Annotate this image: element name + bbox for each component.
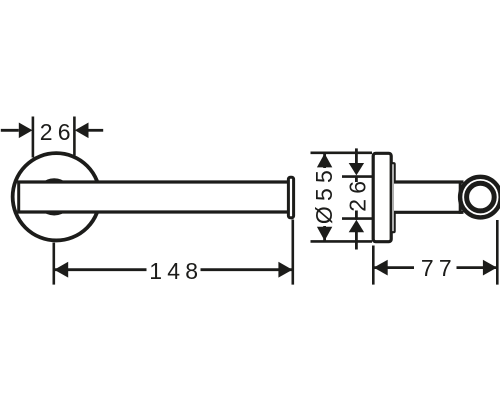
svg-text:26: 26	[345, 176, 371, 212]
front view: roll-holder bar body (white fill over circle)	[19, 182, 288, 212]
dimension 26 (side): top arrow	[349, 163, 364, 175]
dimension D55: top extension line	[311, 152, 373, 155]
dimension 148: left extension line	[52, 243, 55, 285]
side view: arm body white fill	[394, 182, 461, 212]
side view: ring inner circle	[467, 183, 495, 211]
side view: ring outer circle	[460, 177, 500, 218]
front view: mounting hub circle (peeks above/below bar)	[37, 180, 71, 214]
dimension 77: left arrow	[374, 260, 388, 276]
side view: wall plate	[373, 153, 391, 241]
svg-text:77: 77	[421, 255, 457, 281]
dimension 26 (side): value label	[345, 176, 371, 212]
dimension 26 (front): value label	[40, 119, 76, 145]
dimension 26 (side): top extension line	[342, 175, 373, 178]
front view: bar bottom line	[17, 210, 288, 213]
dimension D55: bottom extension line	[311, 240, 373, 243]
dimension D55: line bottom segment	[323, 226, 326, 241]
dimension 26 (side): bottom arrow	[349, 220, 364, 232]
dimension 26 (side): top tail line	[355, 148, 358, 163]
dimension D55: top arrow	[317, 153, 332, 167]
dimension 148: line right segment	[201, 268, 293, 271]
svg-text:26: 26	[40, 119, 76, 145]
dimension 148: line left segment	[54, 268, 146, 271]
dimension 26 (front): left arrow	[19, 123, 33, 139]
dimension 148: left arrow	[54, 262, 68, 278]
dimension 26 (side): bottom tail line	[355, 232, 358, 250]
front view: bar top line	[17, 180, 288, 183]
dimension 77: line right segment	[457, 266, 497, 269]
dimension 148: value label	[149, 258, 203, 284]
dimension 26 (front): left extension line	[32, 117, 35, 158]
svg-text:Ø55: Ø55	[311, 165, 337, 224]
side view: arm bottom line	[394, 211, 464, 214]
dimension 26 (front): right extension line	[73, 117, 76, 156]
dimension 77: right arrow	[483, 260, 497, 276]
side view: arm top line	[394, 180, 464, 183]
dimension D55: value label	[311, 165, 337, 224]
dimension 26 (front): right tail line	[89, 129, 104, 132]
dimension 77: left extension line	[372, 246, 375, 285]
dimension 77: value label	[421, 255, 457, 281]
dimension 26 (side): line top segment	[355, 175, 358, 182]
front view: bar left end line	[17, 181, 20, 214]
dimension 148: right extension line	[291, 220, 294, 285]
dimension 26 (front): left tail line	[1, 129, 19, 132]
dimension D55: bottom arrow	[317, 227, 332, 241]
svg-text:148: 148	[149, 258, 203, 284]
side view: front collar strip	[391, 163, 394, 232]
dimension 26 (side): line bottom segment	[355, 211, 358, 220]
dimension 26 (front): right arrow	[75, 123, 89, 139]
dimension 148: right arrow	[278, 262, 292, 278]
dimension D55: line top segment	[323, 153, 326, 168]
dimension 26 (side): bottom extension line	[342, 217, 373, 220]
side view: arm end line	[459, 181, 462, 214]
dimension 77: line left segment	[374, 266, 414, 269]
front view: rosette circle	[13, 153, 100, 240]
front view: bar end cap	[288, 177, 293, 217]
dimension 77: right extension line	[496, 220, 499, 285]
